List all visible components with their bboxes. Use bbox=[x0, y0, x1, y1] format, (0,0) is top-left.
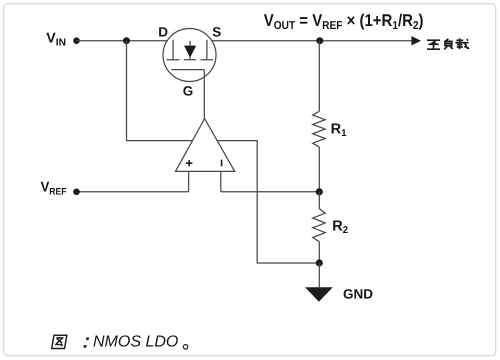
node VIN terminal dot bbox=[73, 37, 80, 44]
svg-text:GND: GND bbox=[343, 286, 373, 301]
wire VOUT down to R1 bbox=[318, 41, 320, 112]
wire VIN branch down to op-amp supply bbox=[127, 41, 193, 141]
wire VIN to drain bbox=[77, 40, 174, 42]
svg-text:G: G bbox=[183, 84, 194, 99]
op-amp U1 bbox=[176, 119, 235, 172]
node junction VOUT bbox=[316, 37, 323, 44]
transistor M1 NMOS pass FET bbox=[163, 29, 216, 82]
node ground rail junction bbox=[316, 259, 323, 266]
plus input mark bbox=[186, 160, 192, 166]
label VOUT formula bbox=[264, 11, 424, 32]
wire VREF to plus input bbox=[77, 191, 189, 193]
svg-text:S: S bbox=[212, 25, 221, 40]
node VREF terminal dot bbox=[73, 189, 80, 196]
wire R1 to feedback node bbox=[318, 147, 320, 192]
node junction VIN branch bbox=[123, 37, 130, 44]
wire inverting input stub bbox=[220, 171, 222, 191]
svg-text:D: D bbox=[158, 25, 168, 40]
wire to ground symbol bbox=[318, 263, 320, 287]
node feedback junction bbox=[316, 188, 323, 195]
caption: 图 ： NMOS LDO。 bbox=[52, 333, 188, 350]
resistor R2 bbox=[313, 209, 326, 242]
wire feedback node to R2 bbox=[318, 192, 320, 209]
resistor R1 bbox=[313, 111, 326, 147]
wire gate to op-amp output bbox=[203, 70, 205, 119]
wire noninverting input stub bbox=[188, 171, 190, 191]
wire op-amp right side down to ground rail bbox=[217, 141, 319, 263]
arrow to load bbox=[411, 36, 421, 46]
minus input mark bbox=[221, 160, 223, 167]
svg-text:NMOS LDO: NMOS LDO bbox=[93, 333, 178, 350]
ground bbox=[305, 287, 333, 301]
wire feedback node to inverting input bbox=[221, 191, 319, 193]
wire source to output arrow bbox=[190, 40, 412, 42]
wire R2 to ground rail bbox=[318, 242, 320, 263]
label VREF bbox=[41, 180, 67, 197]
label 至负载 (to load), hand-drawn glyphs bbox=[427, 38, 469, 49]
